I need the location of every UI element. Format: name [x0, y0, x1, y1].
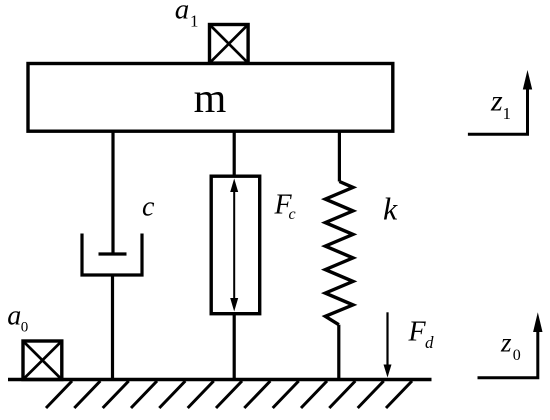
- mass label m: [194, 76, 227, 122]
- ground line: [8, 378, 432, 381]
- svg-text:a: a: [7, 300, 21, 331]
- damper cylinder cup: [82, 234, 142, 276]
- actuator Fc rectangle: [211, 176, 260, 314]
- spring rod (upper, mass to spring): [338, 131, 341, 182]
- spring k zigzag: [325, 182, 353, 325]
- svg-text:z: z: [500, 328, 512, 358]
- svg-text:c: c: [289, 206, 296, 223]
- svg-text:1: 1: [190, 12, 199, 31]
- label c: [142, 192, 155, 223]
- spring rod (lower, spring to ground): [337, 325, 340, 380]
- label a1: [175, 0, 199, 31]
- svg-text:F: F: [408, 317, 427, 348]
- accelerometer a0 (crossed box on ground): [23, 341, 62, 380]
- force Fd arrow (downward onto ground): [384, 312, 392, 377]
- axis z1 (corner with up arrow): [468, 70, 532, 134]
- label Fc: [274, 190, 296, 224]
- svg-text:0: 0: [513, 347, 521, 364]
- label k: [383, 191, 398, 227]
- label Fd: [408, 317, 435, 353]
- actuator rod (lower, actuator to ground): [233, 314, 236, 380]
- damper rod (upper, mass to piston): [111, 131, 114, 254]
- svg-text:1: 1: [503, 104, 512, 123]
- ground hatching: [46, 381, 412, 408]
- label z1: [490, 85, 511, 124]
- label a0: [7, 300, 28, 335]
- svg-text:d: d: [425, 333, 434, 352]
- svg-text:m: m: [194, 76, 227, 122]
- actuator rod (upper, mass to actuator): [233, 131, 236, 176]
- mass m rectangle: [28, 64, 393, 132]
- svg-text:z: z: [490, 85, 503, 118]
- svg-text:c: c: [142, 192, 155, 223]
- label z0: [500, 328, 521, 365]
- actuator internal double-headed arrow: [230, 179, 238, 312]
- svg-text:k: k: [383, 191, 398, 227]
- accelerometer a1 (crossed box on top of mass): [210, 25, 249, 64]
- svg-text:0: 0: [21, 319, 29, 335]
- axis z0 (corner with up arrow): [478, 312, 543, 377]
- damper rod (lower, cup to ground): [111, 275, 114, 380]
- damper piston plate: [99, 252, 127, 255]
- svg-text:a: a: [175, 0, 190, 26]
